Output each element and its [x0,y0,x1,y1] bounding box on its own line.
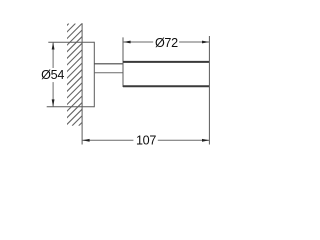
dimension Ø72 : line segments [123,41,153,43]
svg-text:Ø72: Ø72 [155,36,178,50]
dimension 107 : line segments [82,139,133,141]
Ø72 left arrowhead [123,41,130,44]
Ø54 top arrowhead (up) [52,42,55,49]
plate bottom edge + extension line [47,106,95,108]
plate right edge [93,42,95,107]
cylinder bottom edge [123,85,209,87]
dimension Ø54 : vertical line segments [52,42,54,68]
stem top edge [94,63,123,65]
svg-text:Ø54: Ø54 [41,68,64,82]
107 left arrowhead [82,139,89,142]
107 right arrowhead [202,139,209,142]
wall plate (escutcheon) Ø54 : top edge + extension line [48,41,94,43]
Ø72 right arrowhead [202,41,209,44]
wall hatch [0,24,207,126]
cylinder right edge + shared extension line (Ø72 top, 107 bottom) [208,36,210,145]
wall face line (doubles as left extension line of 107) [81,23,83,144]
holder cylinder Ø72 : left edge + Ø72 left extension line [122,37,124,87]
Ø54 bottom arrowhead (down) [52,99,55,106]
cylinder top edge [123,61,209,63]
svg-text:107: 107 [136,133,156,147]
stem bottom edge [94,72,123,74]
